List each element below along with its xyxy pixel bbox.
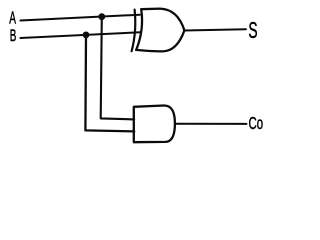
svg-text:B: B [10, 26, 17, 44]
svg-text:Co: Co [249, 114, 264, 134]
svg-text:S: S [248, 18, 257, 43]
